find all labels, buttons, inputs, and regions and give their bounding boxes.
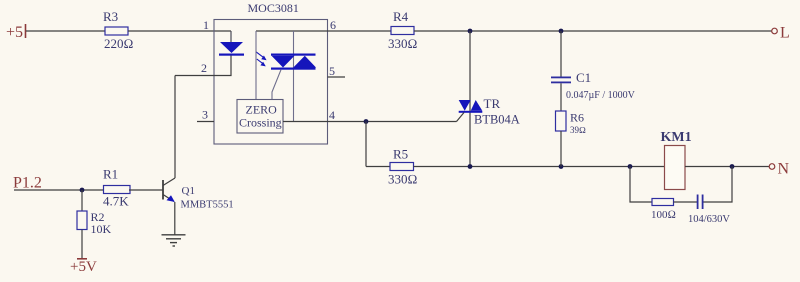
capacitor 104/630V snubber [688,195,730,226]
svg-text:L: L [780,25,790,42]
wire LED anode drop [230,31,232,42]
wire R5 to KM1 left [414,166,665,168]
svg-text:R1: R1 [103,167,118,182]
wire inner left drop to ZERO box [255,31,257,100]
svg-text:220Ω: 220Ω [104,36,134,51]
svg-text:P1.2: P1.2 [13,175,42,192]
junction at snubber left [628,164,633,169]
svg-text:4: 4 [329,108,335,122]
svg-text:ZERO: ZERO [246,103,278,117]
wire P1.2 to R1 [14,189,104,191]
junction at C1 top [559,29,564,34]
svg-text:5: 5 [329,64,335,78]
node L terminal [772,25,790,42]
svg-text:6: 6 [330,18,336,32]
svg-text:1: 1 [203,18,209,32]
wire R5 rail left segment [366,166,390,168]
resistor R2 [77,210,112,236]
svg-text:100Ω: 100Ω [651,209,676,221]
wire R1 to Q1 base [129,189,163,191]
svg-text:Crossing: Crossing [239,116,282,130]
svg-text:MOC3081: MOC3081 [248,1,299,15]
op-coupler U MOC3081 box [214,1,328,144]
capacitor C1 [551,31,636,101]
svg-text:R4: R4 [393,9,409,24]
node N terminal [769,161,789,178]
wire R4 to L terminal [414,30,772,32]
svg-text:2: 2 [201,61,207,75]
photo-triac inside MOC [271,54,316,70]
wire LED cathode to pin 2 [175,56,231,76]
LED diode inside MOC [219,42,244,56]
resistor R4 [388,9,418,51]
wire pin 4 rail [283,121,457,123]
wire inner top rail (pin6) [256,30,391,32]
svg-text:MMBT5551: MMBT5551 [181,200,234,211]
wire drop to photo-triac MT2 [293,31,295,122]
svg-text:R5: R5 [393,147,408,162]
junction at TR top [468,29,473,34]
wire Q1 emitter to ground [174,202,176,235]
triac TR [459,96,520,127]
photon arrow 2 [257,59,266,66]
wire junction down to R2 [81,190,83,211]
wire snubber left drop [630,167,652,203]
resistor R1 [103,167,130,209]
node +5 (power port left) [6,24,26,41]
ground [162,235,186,246]
junction on pin4 rail [364,119,369,124]
relay coil KM1 [661,130,692,190]
transistor Q1 [163,178,234,211]
junction at R2 top [80,188,85,193]
svg-text:104/630V: 104/630V [688,214,730,225]
resistor R5 [388,147,418,187]
junction at R6 bottom [559,164,564,169]
svg-text:KM1: KM1 [661,130,692,145]
svg-text:3: 3 [202,108,208,122]
wire cap to snubber right riser [704,167,733,203]
svg-text:10K: 10K [91,222,112,236]
wire R2 to +5V port [81,230,83,259]
pin 3 stub [197,121,214,123]
svg-text:TR: TR [484,96,501,111]
svg-text:N: N [778,161,790,178]
wire R6 to N rail [560,131,562,167]
svg-text:+5V: +5V [70,259,97,275]
junction at TR bottom [468,164,473,169]
resistor 100ohm snubber [651,199,676,222]
junction at snubber right [730,164,735,169]
svg-text:39Ω: 39Ω [570,125,586,135]
wire C1 to R6 [560,83,562,111]
svg-text:R3: R3 [103,9,118,24]
wire photo-triac gate to ZERO box [272,70,281,100]
svg-text:330Ω: 330Ω [388,36,418,51]
svg-text:330Ω: 330Ω [388,172,418,187]
resistor R3 [103,9,134,51]
photon arrow 1 [256,52,267,60]
wire 100ohm to cap [674,201,698,203]
wire TR gate diagonal [457,113,465,122]
svg-text:Q1: Q1 [182,185,195,197]
svg-text:4.7K: 4.7K [103,194,129,209]
wire KM1 right to N terminal [685,166,769,168]
wire pin4 branch down to R5 rail [365,122,367,167]
wire TR MT2 drop [469,31,471,167]
svg-text:R6: R6 [570,111,584,125]
wire +5 to R3 [26,30,105,32]
svg-text:+5: +5 [6,24,23,41]
wire R3 to MOC pin 1 [128,30,231,32]
ZERO Crossing block [237,100,283,134]
node +5V (power port bottom) [70,259,97,275]
wire pin2 drop to Q1 collector [174,76,176,179]
svg-text:BTB04A: BTB04A [474,113,520,127]
svg-text:C1: C1 [576,70,591,85]
pin 5 stub [328,76,346,78]
svg-text:0.047µF / 1000V: 0.047µF / 1000V [566,90,636,101]
resistor R6 [556,111,587,136]
